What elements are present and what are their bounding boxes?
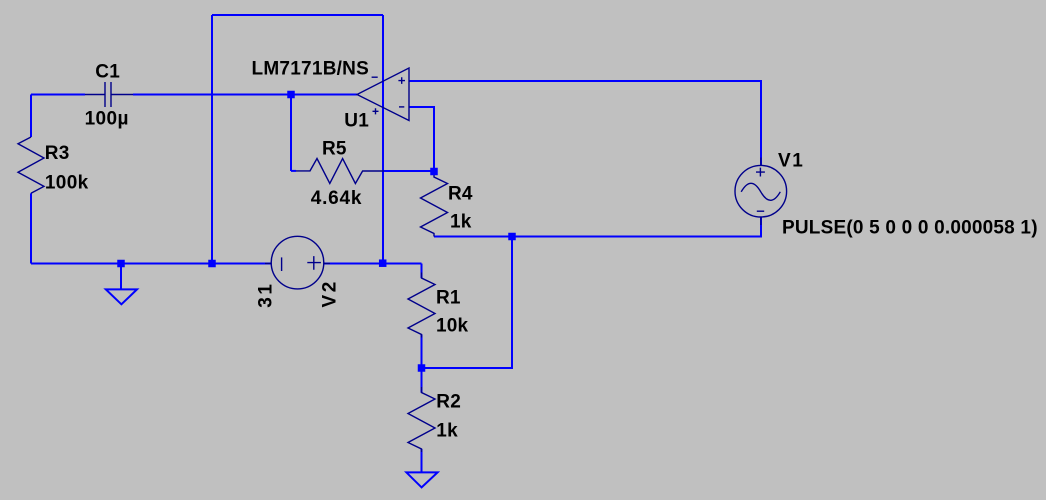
wire bend down to R1 bbox=[421, 264, 423, 279]
svg-text:4.64k: 4.64k bbox=[311, 188, 362, 209]
op-amp V- power marker bbox=[372, 76, 378, 78]
wire R5 left lead bbox=[291, 170, 296, 172]
junction node ground rail left bbox=[117, 260, 125, 268]
svg-text:100k: 100k bbox=[45, 172, 89, 193]
source V2 circle bbox=[271, 236, 324, 289]
svg-text:V1: V1 bbox=[778, 151, 803, 172]
wire output net horizontal (C1 to op-amp output) bbox=[31, 94, 85, 96]
svg-text:R5: R5 bbox=[322, 139, 347, 160]
V1 sine wave bbox=[741, 183, 780, 200]
svg-text:1k: 1k bbox=[450, 212, 472, 233]
resistor R1 bbox=[408, 273, 435, 338]
svg-text:R3: R3 bbox=[45, 143, 70, 164]
wire left vertical of supply rectangle bbox=[211, 15, 213, 264]
svg-text:PULSE(0 5 0 0 0 0.000058 1): PULSE(0 5 0 0 0 0.000058 1) bbox=[782, 218, 1038, 239]
resistor R5 bbox=[296, 159, 384, 184]
wire node down and left to R1/R2 node bbox=[422, 237, 513, 369]
junction node rail / rect vertical bbox=[208, 260, 216, 268]
wire bottom rail right of V2 bbox=[323, 263, 421, 265]
V2 lead stubs bbox=[265, 262, 330, 264]
ground symbol left bbox=[106, 289, 137, 304]
resistor R2 bbox=[408, 387, 435, 452]
op-amp U1 triangle bbox=[357, 68, 409, 121]
wire V1 bottom to left bbox=[512, 217, 761, 237]
wire feedback vertical from output node bbox=[290, 95, 292, 172]
svg-text:LM7171B/NS: LM7171B/NS bbox=[252, 59, 370, 80]
svg-text:R1: R1 bbox=[436, 288, 461, 309]
junction node rail / power vertical bbox=[379, 259, 387, 267]
junction node R5/R4/inverting input bbox=[430, 168, 438, 176]
svg-text:U1: U1 bbox=[344, 111, 369, 132]
wire non-inverting input to V1 bbox=[409, 81, 761, 166]
wire power vertical through op-amp bbox=[382, 15, 384, 264]
V2 minus marker (rotated) bbox=[281, 257, 283, 271]
wire node to R4 bottom bbox=[434, 236, 512, 238]
V1 plus marker bbox=[756, 168, 765, 177]
wire inverting input bbox=[409, 107, 434, 171]
junction node R1/R2 bbox=[418, 364, 426, 372]
op-amp internal minus (inverting, bottom) bbox=[399, 106, 404, 108]
ground symbol bottom bbox=[406, 472, 437, 487]
junction node at output/feedback bbox=[287, 91, 295, 99]
V1 lead stubs bbox=[760, 158, 762, 226]
svg-text:R2: R2 bbox=[436, 392, 461, 413]
V1 minus marker bbox=[757, 210, 764, 212]
svg-text:10k: 10k bbox=[436, 316, 469, 337]
source V1 circle bbox=[735, 165, 787, 217]
wire R1 bottom to node bbox=[421, 335, 423, 369]
svg-text:1k: 1k bbox=[436, 421, 458, 442]
op-amp internal plus (non-inverting, top) bbox=[398, 77, 405, 84]
op-amp V+ power marker bbox=[373, 108, 379, 114]
svg-text:C1: C1 bbox=[95, 62, 120, 83]
V2 plus marker (rotated) bbox=[307, 256, 321, 270]
wire R3 bottom to rail bbox=[30, 193, 32, 263]
wire R2 bottom to ground bbox=[421, 449, 423, 472]
wire top rail V- supply bbox=[212, 14, 383, 16]
wire bottom rail left bbox=[31, 263, 272, 265]
wire left vertical to R3 bbox=[30, 95, 32, 138]
junction node V1 bottom / divider bbox=[508, 233, 516, 241]
wire ground stub left bbox=[120, 264, 122, 290]
resistor R4 bbox=[421, 172, 448, 237]
svg-text:100µ: 100µ bbox=[85, 109, 129, 130]
wire node to R2 top bbox=[421, 368, 423, 393]
capacitor C1 bbox=[85, 82, 133, 107]
wire R5 right to node bbox=[384, 170, 434, 172]
svg-text:R4: R4 bbox=[448, 183, 473, 204]
resistor R3 bbox=[18, 137, 44, 193]
